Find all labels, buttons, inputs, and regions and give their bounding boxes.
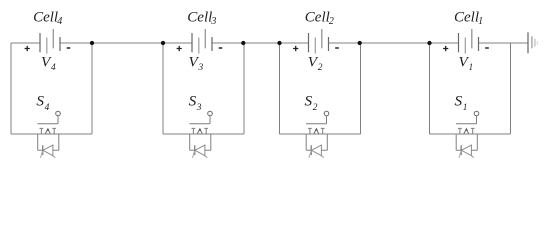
svg-text:3: 3: [210, 16, 216, 27]
svg-text:2: 2: [329, 16, 334, 27]
svg-text:4: 4: [51, 63, 56, 73]
svg-text:Cell: Cell: [187, 10, 212, 26]
svg-text:1: 1: [478, 16, 483, 27]
svg-text:Cell: Cell: [305, 10, 330, 26]
svg-text:S: S: [455, 92, 463, 109]
svg-text:2: 2: [313, 103, 318, 113]
svg-text:S: S: [305, 92, 313, 109]
svg-text:1: 1: [463, 103, 468, 113]
svg-text:Cell: Cell: [33, 10, 58, 26]
svg-text:4: 4: [45, 103, 50, 113]
svg-text:1: 1: [469, 63, 474, 73]
svg-text:2: 2: [318, 63, 323, 73]
svg-text:4: 4: [57, 16, 62, 27]
svg-text:S: S: [189, 92, 197, 109]
svg-text:3: 3: [198, 63, 204, 73]
svg-text:S: S: [36, 92, 44, 109]
svg-text:Cell: Cell: [454, 10, 479, 26]
svg-text:3: 3: [196, 103, 202, 113]
